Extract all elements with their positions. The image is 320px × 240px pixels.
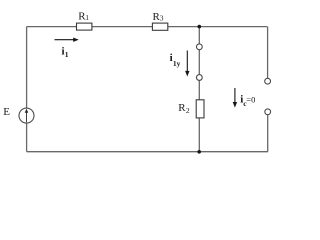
svg-text:E: E	[3, 106, 10, 118]
svg-text:1у: 1у	[173, 59, 181, 68]
resistor R1	[77, 23, 92, 30]
wire top (left rail to right rail)	[27, 26, 268, 28]
svg-text:=0: =0	[246, 95, 255, 105]
node junction top (dot)	[198, 25, 202, 29]
current arrow i1	[55, 39, 75, 41]
wire bottom	[27, 151, 268, 153]
svg-text:3: 3	[160, 14, 164, 23]
resistor R3	[152, 23, 167, 30]
wire right lower segment	[267, 115, 269, 152]
voltage source arrow	[26, 111, 28, 122]
svg-text:2: 2	[186, 106, 190, 115]
svg-text:1: 1	[65, 50, 69, 59]
node junction bottom (dot)	[197, 150, 201, 154]
current arrow ic	[234, 88, 236, 103]
wire right upper segment	[267, 27, 269, 79]
wire middle branch (junction to bottom)	[198, 27, 200, 152]
current arrow i1y	[186, 51, 188, 72]
wire left (vertical)	[26, 27, 28, 152]
terminal circle lower (middle branch)	[196, 75, 202, 81]
terminal circle upper (middle branch)	[196, 44, 202, 50]
resistor R2	[196, 100, 204, 118]
terminal circle right lower	[265, 109, 271, 115]
svg-text:1: 1	[85, 13, 89, 22]
terminal circle right upper	[265, 78, 271, 84]
voltage source E circle	[19, 108, 34, 123]
